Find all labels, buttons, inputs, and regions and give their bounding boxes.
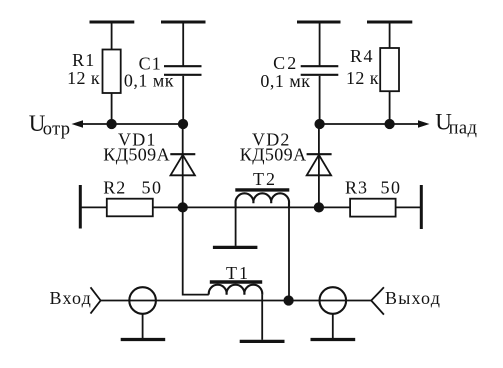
transformer T1 winding xyxy=(209,285,262,295)
input coax circle xyxy=(129,287,156,314)
resistor R4 xyxy=(380,48,399,91)
node dot C2/VD2 xyxy=(314,119,324,129)
svg-text:Выход: Выход xyxy=(385,288,441,308)
svg-text:T1: T1 xyxy=(226,263,250,283)
output coax circle xyxy=(320,287,347,314)
svg-text:КД509А: КД509А xyxy=(103,144,170,164)
svg-text:пад: пад xyxy=(449,119,478,139)
svg-text:КД509А: КД509А xyxy=(240,144,307,164)
middle through wire xyxy=(153,206,350,208)
transformer T2 winding xyxy=(236,193,290,207)
wire rail to R1 xyxy=(111,23,113,50)
node dot T2/output line xyxy=(283,295,293,305)
power rail bar above R4 xyxy=(367,21,412,24)
output circle ground stem xyxy=(332,314,334,338)
output connector chevron xyxy=(371,287,384,314)
node dot VD1/midline xyxy=(178,202,188,212)
diode VD1 triangle xyxy=(171,155,195,175)
Upad output wire xyxy=(320,123,420,125)
wire C1 to node xyxy=(182,76,184,124)
svg-text:R2: R2 xyxy=(103,178,126,198)
svg-text:отр: отр xyxy=(43,119,71,139)
svg-text:C2: C2 xyxy=(273,53,298,73)
left terminator bar xyxy=(79,185,82,229)
T1 screen bar xyxy=(240,340,285,343)
node dot R1/Uotr xyxy=(106,119,116,129)
resistor R2 xyxy=(107,199,153,217)
svg-text:R1: R1 xyxy=(72,50,95,70)
input ground bar xyxy=(121,338,166,341)
svg-text:0,1 мк: 0,1 мк xyxy=(260,71,310,91)
diode VD1 vertical wire xyxy=(182,124,184,207)
capacitor C2 xyxy=(301,65,339,67)
power rail bar above C2 xyxy=(297,21,341,24)
svg-text:Вход: Вход xyxy=(50,288,93,308)
right terminator bar xyxy=(420,185,423,229)
svg-text:50: 50 xyxy=(142,178,163,198)
power rail bar above R1 xyxy=(90,21,135,24)
wire R3 to right bar xyxy=(396,206,420,208)
Uotr arrow head xyxy=(72,120,84,128)
resistor R3 xyxy=(350,199,396,217)
wire bar to R2 xyxy=(82,206,107,208)
svg-text:12 к: 12 к xyxy=(346,68,379,88)
svg-text:0,1 мк: 0,1 мк xyxy=(124,71,174,91)
input circle ground stem xyxy=(142,314,144,338)
resistor R1 xyxy=(103,50,121,94)
svg-text:R4: R4 xyxy=(350,46,374,66)
T2 screen stem xyxy=(235,203,237,246)
VD1 node to T1 lead wire xyxy=(183,207,209,294)
diode VD2 vertical wire xyxy=(318,124,320,207)
node dot VD2/midline xyxy=(314,202,324,212)
svg-text:T2: T2 xyxy=(253,169,277,189)
input connector chevron xyxy=(91,287,101,313)
svg-text:12 к: 12 к xyxy=(67,68,100,88)
wire rail to C2 xyxy=(319,23,321,66)
node dot C1/VD1 xyxy=(178,119,188,129)
node dot R4/Upad xyxy=(384,119,394,129)
diode VD2 cathode bar xyxy=(307,153,332,155)
wire rail to R4 xyxy=(389,23,391,48)
svg-text:R3: R3 xyxy=(345,178,368,198)
transformer T1 core bar xyxy=(210,280,262,283)
bottom through line xyxy=(101,300,372,302)
T1 right lead to screen bar xyxy=(261,295,263,340)
wire R4 to node xyxy=(389,91,391,124)
wire R1 to node xyxy=(111,93,113,124)
Upad arrow head xyxy=(418,120,430,128)
wire rail to C1 xyxy=(182,23,184,66)
transformer T2 core bar xyxy=(235,188,289,191)
T2 screen bar xyxy=(213,246,258,249)
capacitor C1 xyxy=(164,65,202,67)
power rail bar above C1 xyxy=(161,21,206,24)
Uotr output wire xyxy=(81,123,183,125)
T2 right lead down to output line xyxy=(288,203,290,300)
wire C2 to node xyxy=(319,76,321,124)
diode VD1 cathode bar xyxy=(170,153,195,155)
output ground bar xyxy=(311,338,356,341)
svg-text:50: 50 xyxy=(381,178,402,198)
diode VD2 triangle xyxy=(307,155,331,175)
